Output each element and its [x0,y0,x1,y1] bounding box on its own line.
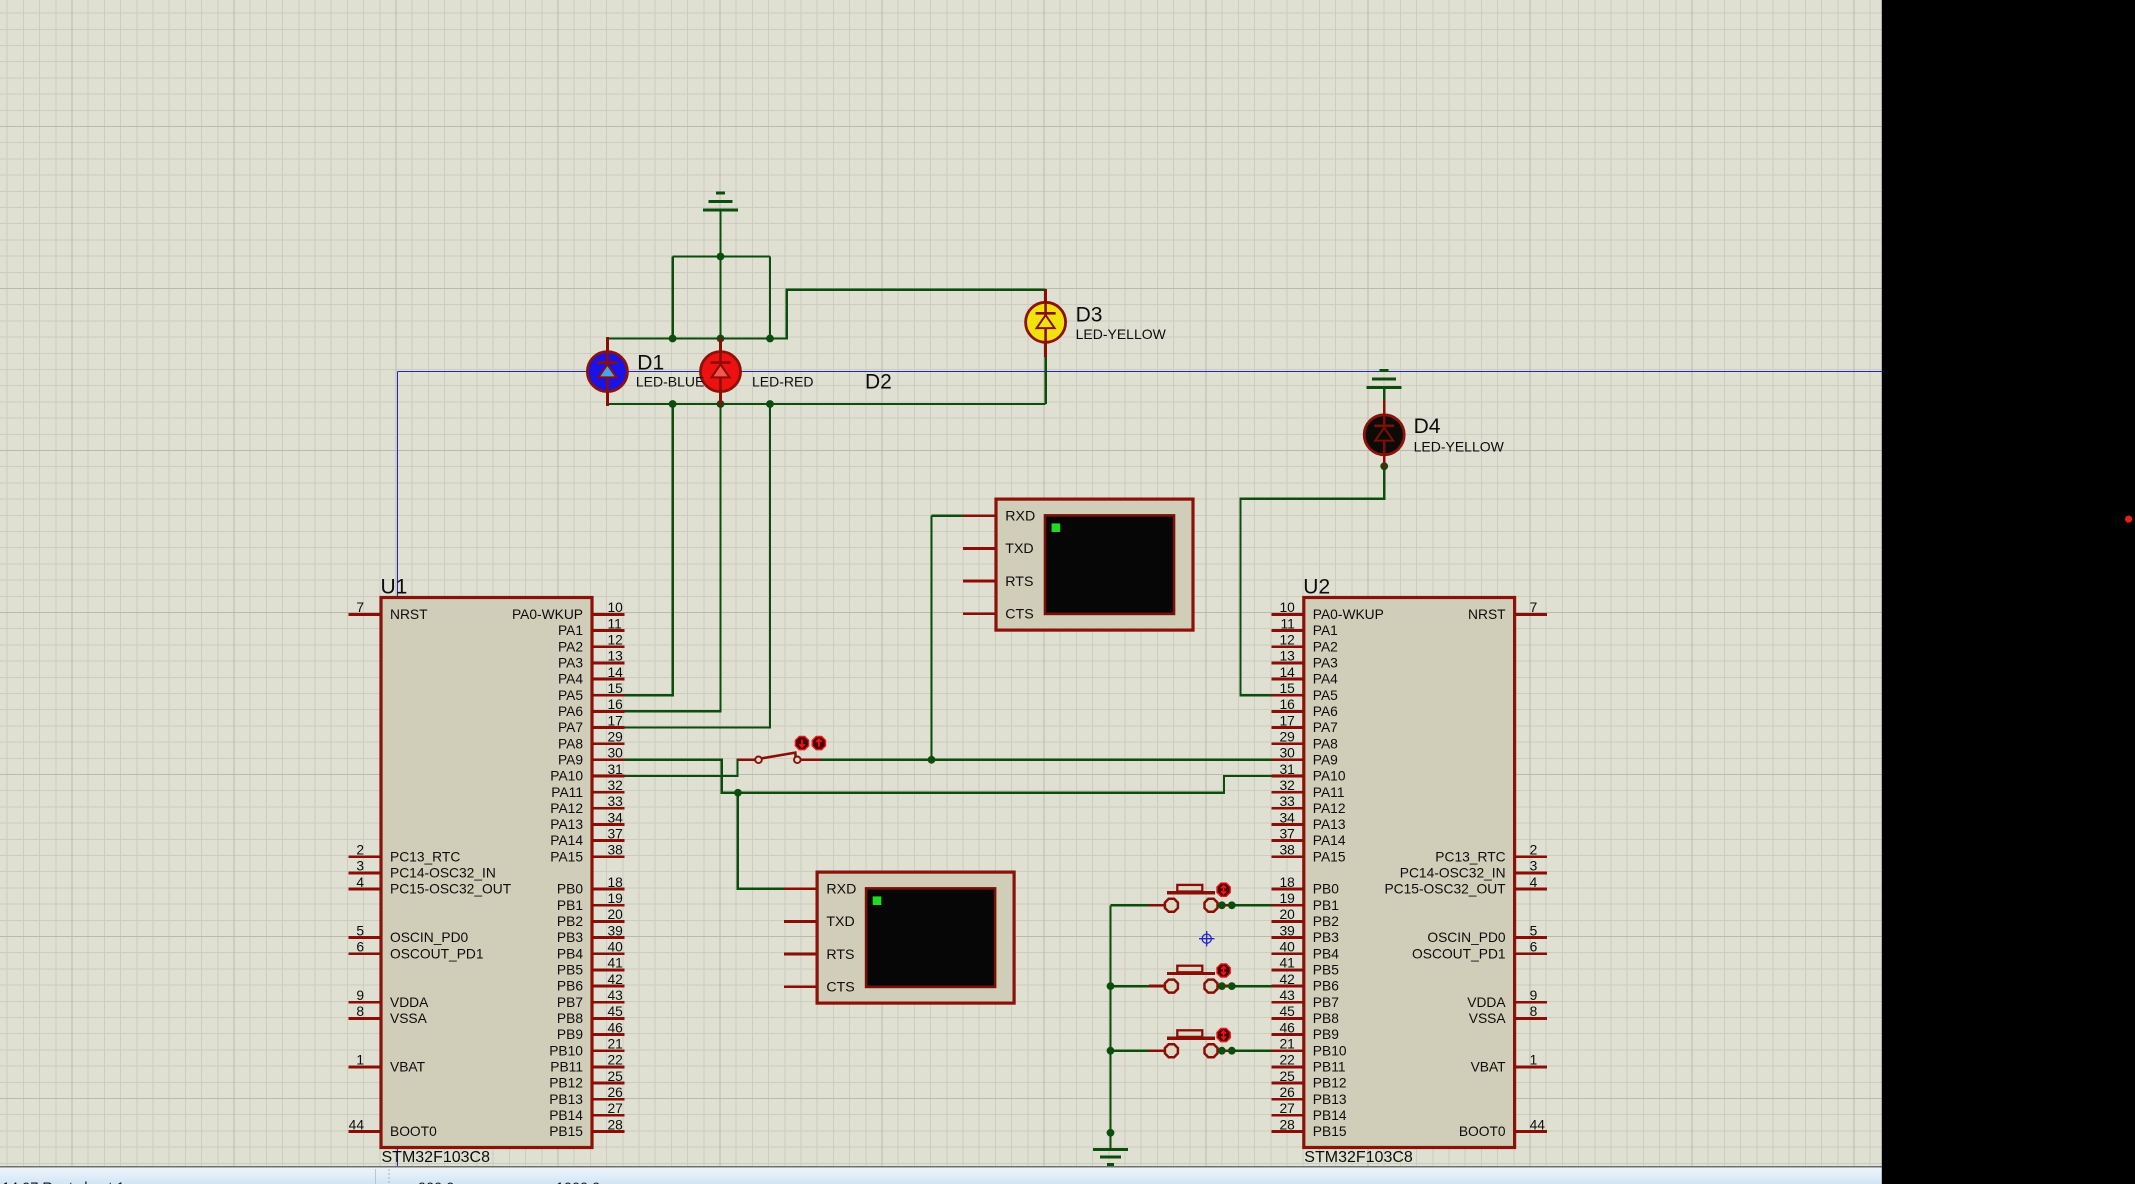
svg-text:PA6: PA6 [1313,704,1338,719]
svg-text:RTS: RTS [826,947,854,963]
push button B1 marker [1217,883,1230,896]
svg-text:LED-RED: LED-RED [752,374,813,390]
diode D3 pins [1044,289,1047,357]
svg-text:D4: D4 [1414,415,1441,438]
junction D4 cathode [1380,462,1388,470]
switch marker down-arrow [795,737,808,750]
svg-text:21: 21 [1279,1037,1294,1052]
ground stem down through junctions [719,211,721,340]
switch SW contacts [755,757,762,764]
IC U1 pin names [390,607,583,1139]
svg-text:44: 44 [349,1117,365,1132]
wire rail to U1 PA5 [625,404,673,695]
svg-text:RXD: RXD [826,882,856,898]
push button B2 wire junction dots [1224,985,1230,988]
svg-text:NRST: NRST [390,607,428,622]
svg-text:26: 26 [608,1085,624,1100]
IC U2 pin names [1313,607,1507,1139]
junction [669,400,677,408]
svg-text:16: 16 [1279,697,1295,712]
svg-text:PA8: PA8 [558,736,583,751]
wire ground bus horizontal [673,255,770,257]
virtual terminal VT1 body [996,499,1193,630]
svg-text:18: 18 [608,875,624,890]
svg-text:PC14-OSC32_IN: PC14-OSC32_IN [1400,866,1506,881]
svg-text:8: 8 [1530,1004,1538,1019]
svg-text:PA8: PA8 [1313,736,1338,751]
svg-text:3: 3 [356,859,364,874]
svg-text:10: 10 [608,600,624,615]
svg-text:PB10: PB10 [1313,1043,1347,1058]
ground symbol above D4 [1367,370,1402,387]
svg-text:19: 19 [608,891,624,906]
svg-text:25: 25 [608,1069,624,1084]
svg-text:BOOT0: BOOT0 [390,1124,437,1139]
svg-text:21: 21 [608,1037,623,1052]
svg-text:39: 39 [1279,923,1295,938]
wire net top horizontal D1/D2 anodes [607,337,770,339]
wire bus right drop [769,257,771,339]
wire net bottom rail D1/D2/D3 cathodes [607,403,1045,405]
virtual terminal VT1 pins [963,516,996,614]
svg-text:PB5: PB5 [1313,963,1339,978]
status bar separator [0,1166,1882,1168]
svg-text:PB1: PB1 [557,898,583,913]
svg-text:PC15-OSC32_OUT: PC15-OSC32_OUT [1384,882,1506,897]
push button B3 pins [1149,1049,1230,1052]
svg-text:8: 8 [356,1004,364,1019]
virtual terminal VT1 screen [1045,515,1174,614]
svg-text:1: 1 [1530,1053,1538,1068]
wire rail to U1 PA7 [625,404,771,728]
svg-text:PC14-OSC32_IN: PC14-OSC32_IN [390,866,496,881]
svg-text:VBAT: VBAT [390,1060,426,1075]
svg-text:NRST: NRST [1468,607,1506,622]
svg-text:PB13: PB13 [1313,1092,1347,1107]
svg-text:PA12: PA12 [1313,801,1346,816]
svg-text:39: 39 [608,923,624,938]
svg-text:11: 11 [1280,616,1294,631]
svg-text:10: 10 [1279,600,1295,615]
svg-text:OSCIN_PD0: OSCIN_PD0 [1427,930,1506,945]
svg-text:28: 28 [608,1117,624,1132]
svg-text:33: 33 [608,794,624,809]
svg-text:26: 26 [1279,1085,1295,1100]
virtual terminal VT2 screen [866,888,995,987]
svg-text:37: 37 [1279,826,1294,841]
svg-text:31: 31 [608,762,623,777]
svg-text:PC13_RTC: PC13_RTC [390,849,460,864]
wire bus left drop [671,257,673,339]
svg-text:PA5: PA5 [1313,688,1338,703]
svg-text:17: 17 [1279,713,1294,728]
svg-text:PB13: PB13 [549,1092,583,1107]
svg-text:46: 46 [608,1020,624,1035]
svg-text:PB7: PB7 [557,995,583,1010]
svg-text:PB5: PB5 [557,963,583,978]
svg-text:PA3: PA3 [1313,655,1338,670]
svg-text:34: 34 [1279,810,1295,825]
junction [1107,1047,1115,1055]
svg-text:29: 29 [1279,729,1295,744]
svg-text:PA1: PA1 [1313,623,1338,638]
svg-text:22: 22 [1279,1053,1294,1068]
junction [717,253,725,261]
svg-text:32: 32 [608,778,623,793]
svg-text:PA12: PA12 [550,801,583,816]
svg-text:VBAT: VBAT [1471,1060,1507,1075]
svg-text:PB9: PB9 [1313,1027,1339,1042]
svg-text:PC15-OSC32_OUT: PC15-OSC32_OUT [390,882,512,897]
wire VT2 RXD riser [738,793,785,889]
IC U1 STM32F103C8 body [381,598,592,1148]
svg-text:OSCIN_PD0: OSCIN_PD0 [390,930,469,945]
wire U1 PA9 jog down [625,760,738,793]
junction [669,335,677,343]
svg-text:5: 5 [356,923,364,938]
wire buttons ground bus [1109,905,1111,1148]
junction [717,335,725,343]
svg-text:7: 7 [356,600,364,615]
svg-text:PA6: PA6 [558,704,583,719]
wire D4 ground stub [1383,389,1385,402]
svg-text:41: 41 [1279,956,1294,971]
svg-text:11: 11 [608,616,622,631]
svg-text:D3: D3 [1076,304,1103,327]
svg-text:PC13_RTC: PC13_RTC [1435,849,1505,864]
junction [734,789,742,797]
svg-text:PB12: PB12 [1313,1076,1347,1091]
push button B2 pins [1149,985,1230,988]
svg-text:TXD: TXD [826,914,854,930]
svg-text:42: 42 [608,972,623,987]
virtual terminal VT2 body [817,872,1014,1003]
push button B2 contacts [1165,980,1178,993]
svg-text:PB4: PB4 [557,946,583,961]
svg-text:LED-BLUE: LED-BLUE [636,374,704,390]
svg-text:40: 40 [608,940,624,955]
svg-text:U1: U1 [381,576,408,599]
svg-text:VSSA: VSSA [1469,1011,1507,1026]
wire long PA9-to-U2 PA10 [738,776,1272,793]
svg-text:44: 44 [1530,1117,1546,1132]
LED D4 yellow (off) [1364,402,1404,468]
svg-text:PA4: PA4 [558,672,583,687]
svg-text:PA11: PA11 [551,785,583,800]
IC U1 pin stubs [349,614,625,1131]
svg-text:43: 43 [608,988,624,1003]
svg-text:PA7: PA7 [1313,720,1338,735]
diode D2 pins [719,338,722,407]
svg-text:VDDA: VDDA [390,995,429,1010]
svg-text:VSSA: VSSA [390,1011,428,1026]
svg-text:45: 45 [608,1004,624,1019]
svg-text:PB6: PB6 [1313,979,1339,994]
side panel (off-canvas area) [1882,0,2135,1184]
svg-text:14: 14 [608,665,624,680]
svg-text:22: 22 [608,1053,623,1068]
svg-text:29: 29 [608,729,624,744]
svg-text:PB6: PB6 [557,979,583,994]
svg-text:U2: U2 [1303,576,1330,599]
svg-text:PA13: PA13 [550,817,583,832]
push button B2 actuator [1167,972,1215,975]
svg-text:45: 45 [1279,1004,1295,1019]
svg-text:38: 38 [1279,843,1295,858]
svg-text:2: 2 [356,843,364,858]
svg-text:PA5: PA5 [558,688,583,703]
wire U1 PA10 up to switch [625,759,738,776]
svg-text:PB0: PB0 [557,882,583,897]
svg-text:PB8: PB8 [557,1011,583,1026]
svg-text:7: 7 [1530,600,1538,615]
svg-text:15: 15 [1279,681,1295,696]
svg-text:33: 33 [1279,794,1295,809]
svg-text:16: 16 [608,697,624,712]
svg-text:PA10: PA10 [550,769,583,784]
svg-text:12: 12 [1279,633,1294,648]
svg-text:STM32F103C8: STM32F103C8 [1304,1149,1413,1166]
svg-text:PB14: PB14 [1313,1108,1347,1123]
svg-text:PB0: PB0 [1313,882,1339,897]
push button B3 wire junction dots [1224,1049,1230,1052]
svg-text:PB14: PB14 [549,1108,583,1123]
svg-text:6: 6 [356,940,364,955]
wire to D3 top [770,290,1046,339]
svg-text:PB10: PB10 [549,1043,583,1058]
svg-text:14: 14 [1279,665,1295,680]
svg-text:BOOT0: BOOT0 [1459,1124,1506,1139]
virtual terminal VT2 cursor [873,896,882,905]
svg-text:37: 37 [608,826,623,841]
svg-text:-1000.0: -1000.0 [551,1181,600,1184]
sheet border blue line [397,372,1882,1167]
junction [928,756,936,764]
svg-text:32: 32 [1279,778,1294,793]
svg-text:3: 3 [1530,859,1538,874]
svg-text:RXD: RXD [1005,509,1035,525]
svg-text:PA10: PA10 [1313,769,1346,784]
svg-text:9: 9 [356,988,364,1003]
svg-text:TXD: TXD [1005,541,1033,557]
IC U2 pin stubs [1271,614,1547,1131]
IC U1 pin numbers [349,600,624,1132]
svg-text:PA4: PA4 [1313,672,1338,687]
LED D3 yellow [1026,289,1066,355]
wire button3 left [1111,1049,1150,1051]
svg-text:OSCOUT_PD1: OSCOUT_PD1 [1412,946,1506,961]
svg-text:PA14: PA14 [550,833,583,848]
svg-text:PB3: PB3 [557,930,583,945]
svg-text:PB4: PB4 [1313,946,1339,961]
svg-text:PB7: PB7 [1313,995,1339,1010]
svg-text:PA9: PA9 [558,752,583,767]
push button B3 actuator [1167,1037,1215,1040]
svg-text:PA2: PA2 [1313,639,1338,654]
wire D4 to U2 PA5 [1241,464,1385,695]
svg-text:D1: D1 [637,352,664,375]
push button B1 pins [1149,904,1230,907]
junction [766,400,774,408]
svg-text:PB8: PB8 [1313,1011,1339,1026]
svg-text:PA15: PA15 [1313,849,1346,864]
wire rail to U1 PA6 [625,404,721,711]
ground symbol above D2 [703,193,738,210]
svg-text:14.07 Root sheet 1: 14.07 Root sheet 1 [2,1181,125,1184]
svg-text:PB1: PB1 [1313,898,1339,913]
svg-text:20: 20 [1279,907,1295,922]
IC U2 pin numbers [1279,600,1545,1132]
svg-text:27: 27 [1279,1101,1294,1116]
svg-text:40: 40 [1279,940,1295,955]
diode D1 pins [606,337,609,406]
svg-text:PA11: PA11 [1313,785,1345,800]
svg-text:27: 27 [608,1101,623,1116]
svg-text:28: 28 [1279,1117,1295,1132]
svg-text:13: 13 [608,649,624,664]
svg-text:PA13: PA13 [1313,817,1346,832]
svg-text:9: 9 [1530,988,1538,1003]
wire VT1 RXD riser [932,516,964,760]
svg-text:PA1: PA1 [558,623,583,638]
svg-text:42: 42 [1279,972,1294,987]
svg-text:PA0-WKUP: PA0-WKUP [1313,607,1384,622]
push button B1 contacts [1165,899,1178,912]
svg-text:17: 17 [608,713,623,728]
svg-text:D2: D2 [865,371,892,394]
wire D3 bottom drop [1044,356,1046,404]
svg-text:18: 18 [1279,875,1295,890]
wire button3 to U2 PB10 [1234,1049,1272,1051]
svg-text:900.0: 900.0 [418,1181,454,1184]
svg-text:PB11: PB11 [550,1059,583,1074]
push button B1 wire junction dots [1224,904,1230,907]
svg-text:4: 4 [356,875,364,890]
switch marker up-arrow [812,737,825,750]
svg-text:PA3: PA3 [558,655,583,670]
virtual terminal VT1 cursor [1052,523,1061,532]
svg-text:13: 13 [1279,649,1295,664]
svg-text:PB12: PB12 [549,1076,583,1091]
svg-text:43: 43 [1279,988,1295,1003]
ground symbol below buttons [1093,1150,1128,1165]
svg-text:4: 4 [1530,875,1538,890]
svg-text:46: 46 [1279,1020,1295,1035]
svg-text:25: 25 [1279,1069,1295,1084]
svg-text:19: 19 [1279,891,1295,906]
svg-text:12: 12 [608,633,623,648]
wire switch to U2 PA9 [820,759,1271,761]
diode D4 pins [1383,401,1386,466]
svg-text:2: 2 [1530,843,1538,858]
wire button2 left [1111,985,1150,987]
svg-text:PB2: PB2 [557,914,583,929]
svg-text:PA0-WKUP: PA0-WKUP [512,607,583,622]
svg-text:38: 38 [608,843,624,858]
svg-text:PB9: PB9 [557,1027,583,1042]
svg-text:LED-YELLOW: LED-YELLOW [1414,439,1505,455]
push button B2 marker [1217,964,1230,977]
origin marker crosshair [1199,931,1214,946]
svg-text:5: 5 [1530,923,1538,938]
junction [1107,1129,1115,1137]
push button B3 marker [1217,1029,1230,1042]
svg-text:VDDA: VDDA [1467,995,1506,1010]
push button B1 actuator [1167,891,1215,894]
svg-text:20: 20 [608,907,624,922]
svg-text:30: 30 [1279,746,1295,761]
svg-text:PB15: PB15 [1313,1124,1347,1139]
LED D1 blue [587,339,627,405]
svg-text:STM32F103C8: STM32F103C8 [382,1149,491,1166]
IC U2 STM32F103C8 body [1304,598,1515,1148]
svg-text:PB2: PB2 [1313,914,1339,929]
svg-text:CTS: CTS [1005,607,1033,623]
push button B3 contacts [1165,1044,1178,1057]
switch SW lever [762,753,796,759]
stray red dot [2125,516,2132,523]
switch SW pins [738,758,821,761]
svg-text:PA2: PA2 [558,639,583,654]
svg-text:RTS: RTS [1005,574,1033,590]
svg-text:31: 31 [1279,762,1294,777]
svg-text:41: 41 [608,956,623,971]
svg-text:30: 30 [608,746,624,761]
svg-text:PA15: PA15 [550,849,583,864]
svg-text:PA7: PA7 [558,720,583,735]
junction [766,335,774,343]
virtual terminal VT2 pins [784,889,817,987]
status bar [0,1168,1882,1184]
svg-text:PB15: PB15 [549,1124,583,1139]
svg-text:LED-YELLOW: LED-YELLOW [1076,326,1167,342]
svg-text:OSCOUT_PD1: OSCOUT_PD1 [390,946,484,961]
junction [717,400,725,408]
LED D2 red [701,339,741,405]
svg-text:15: 15 [608,681,624,696]
wire button2 to U2 PB6 [1234,985,1272,987]
svg-text:PA9: PA9 [1313,752,1338,767]
junction [1107,982,1115,990]
svg-text:CTS: CTS [826,980,854,996]
svg-text:PA14: PA14 [1313,833,1346,848]
svg-text:6: 6 [1530,940,1538,955]
svg-text:PB3: PB3 [1313,930,1339,945]
wire button1 left [1111,904,1150,906]
svg-text:1: 1 [356,1053,364,1068]
svg-text:34: 34 [608,810,624,825]
svg-text:PB11: PB11 [1313,1059,1346,1074]
wire button1 to U2 PB1 [1234,904,1272,906]
